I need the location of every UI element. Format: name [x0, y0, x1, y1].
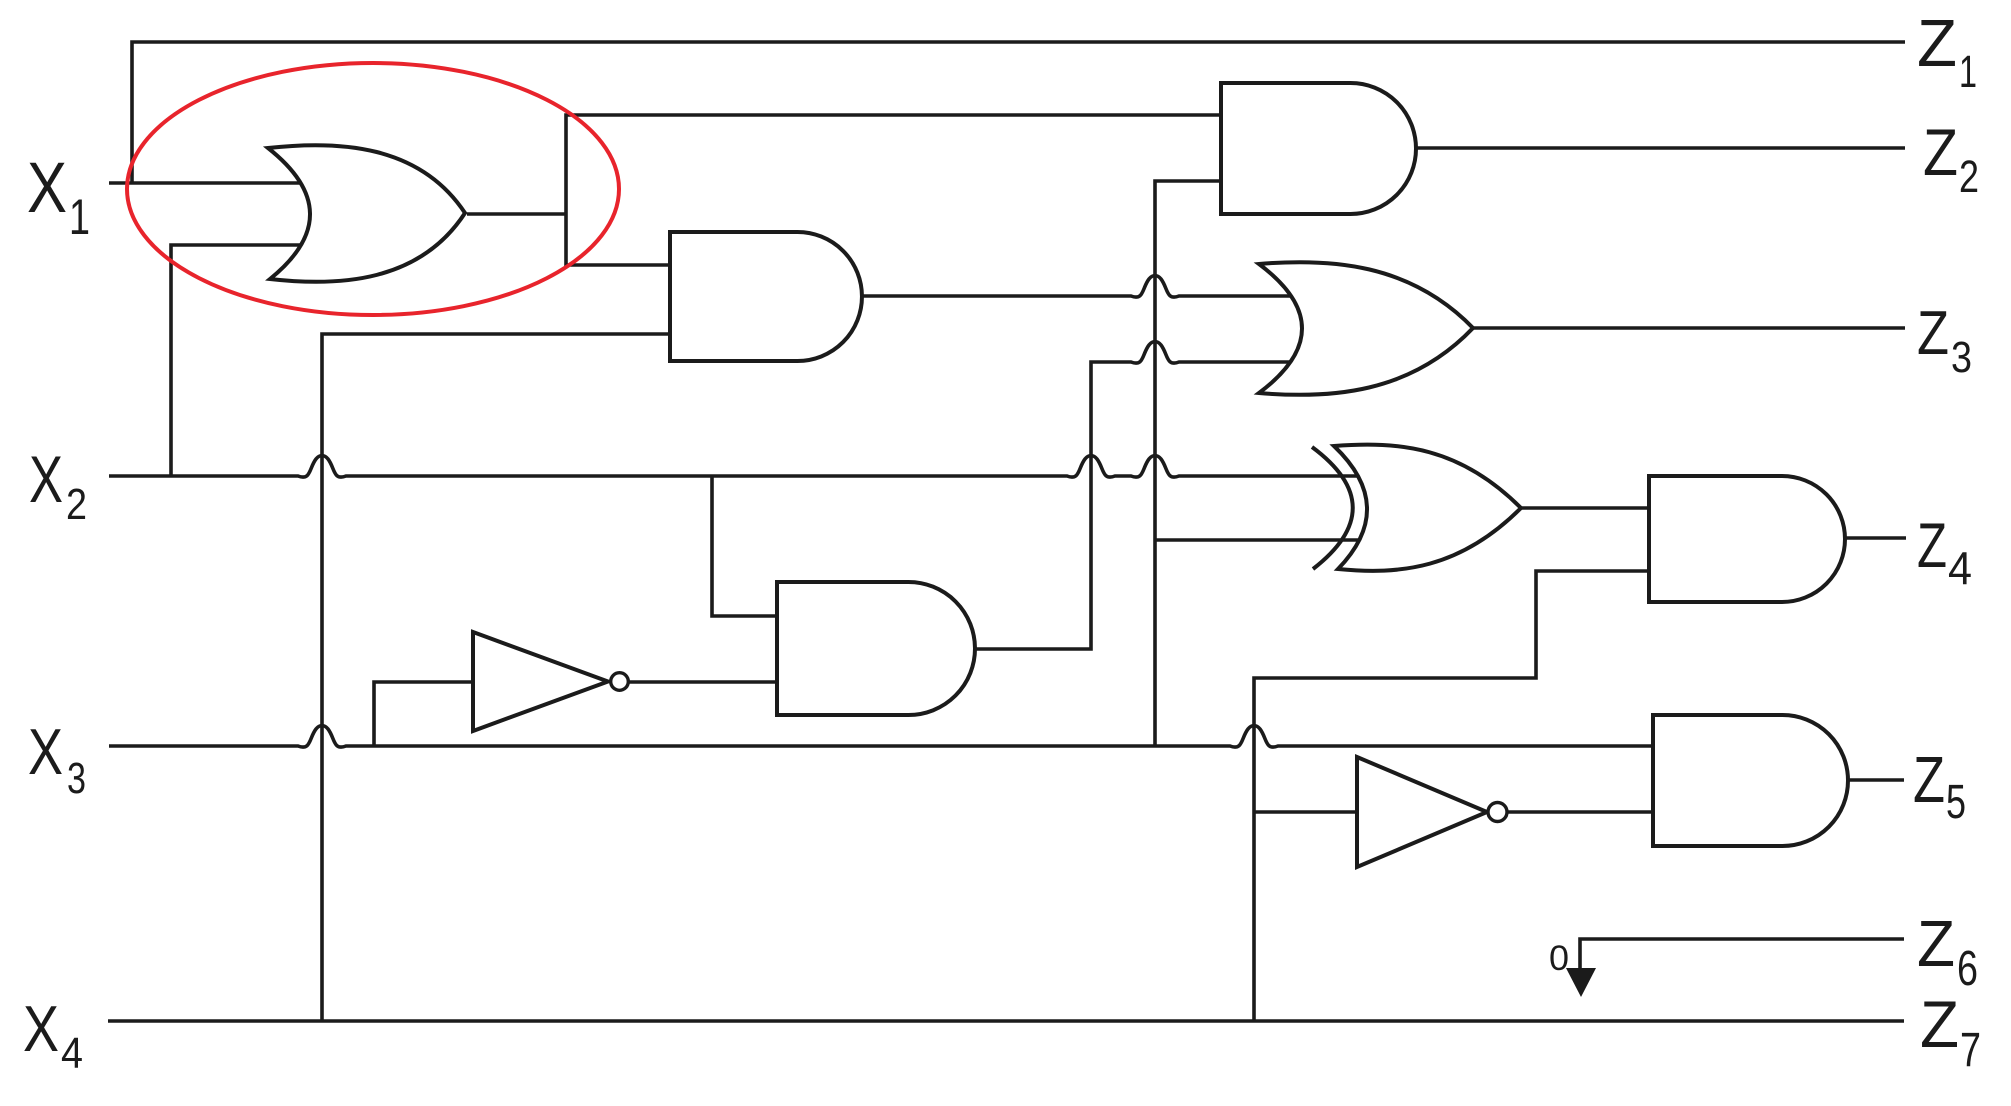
svg-text:7: 7 — [1960, 1024, 1981, 1077]
wire Z1 net: X1 branch up and across to Z1 — [132, 42, 1905, 183]
xor-gate G7 body — [1334, 445, 1521, 571]
or-gate G5 — [1259, 262, 1473, 395]
wire OR G5 output to Z3 — [1473, 326, 1905, 330]
and-gate G3 — [777, 582, 975, 715]
wire X2 branch up to OR G1 lower input — [171, 245, 305, 476]
svg-text:Z: Z — [1917, 299, 1949, 368]
svg-text:Z: Z — [1923, 115, 1958, 189]
and-gate G10 — [1653, 715, 1848, 846]
wire X2 input across to XOR G7 upper input (hops at x=322,1091,1155) — [109, 456, 1368, 477]
wire AND G6 output to Z2 — [1416, 146, 1905, 150]
svg-text:2: 2 — [66, 480, 87, 529]
wire OR G1 output — [467, 212, 566, 216]
svg-text:4: 4 — [61, 1029, 83, 1078]
and-gate G2 — [670, 232, 862, 361]
wire AND G2 output to OR G5 upper input (hops at x=1155) — [860, 276, 1300, 297]
svg-text:Z: Z — [1917, 907, 1955, 980]
and-gate G8 — [1649, 476, 1845, 602]
svg-text:X: X — [29, 442, 63, 516]
svg-text:X: X — [28, 715, 63, 788]
wire X3 bus branch to XOR G7 lower input — [1155, 538, 1368, 542]
or-gate G1 (circled) — [268, 145, 465, 282]
svg-text:X: X — [27, 149, 67, 228]
wire X3 stub up to NOT G4 input — [374, 682, 478, 746]
xor-gate G7 input arc — [1312, 447, 1353, 569]
wire X4 branch up to AND G2 lower input — [322, 334, 680, 1021]
wire NOT G4 output to AND G3 lower input — [629, 680, 784, 684]
not-gate G9 triangle — [1357, 757, 1487, 867]
svg-text:1: 1 — [69, 189, 90, 245]
wire G1 output node to AND G6 upper input and AND G2 upper input — [566, 115, 1221, 265]
svg-text:6: 6 — [1957, 942, 1978, 996]
red highlight ellipse around G1 — [127, 63, 619, 315]
svg-text:4: 4 — [1948, 542, 1972, 594]
svg-text:Z: Z — [1920, 987, 1959, 1061]
wire AND G10 output to Z5 — [1848, 778, 1904, 782]
svg-text:3: 3 — [1951, 333, 1972, 382]
wire X3 input across to AND G10 upper input (hops at x=322,1254) — [109, 726, 1653, 747]
not-gate G9 bubble — [1488, 803, 1507, 822]
svg-text:0: 0 — [1549, 939, 1569, 978]
svg-text:X: X — [23, 992, 59, 1065]
constant 0 arrowhead — [1566, 968, 1596, 997]
wire AND G8 output to Z4 — [1845, 536, 1906, 540]
and-gate G6 — [1221, 83, 1416, 214]
wire X1 input — [109, 181, 310, 185]
wire constant-0 to Z6 — [1580, 939, 1904, 968]
svg-text:Z: Z — [1917, 511, 1947, 581]
svg-text:1: 1 — [1959, 46, 1977, 97]
wire X4 branch up, over to AND G8 lower input — [1254, 571, 1649, 1021]
wire NOT G9 output to AND G10 lower input — [1507, 810, 1653, 814]
svg-text:5: 5 — [1946, 776, 1966, 829]
wire X3 bus: up from X3 line to AND G6 lower input — [1155, 181, 1221, 746]
wire X4 branch to NOT G9 input — [1254, 810, 1362, 814]
wire X2 branch down to AND G3 upper input — [712, 476, 784, 616]
svg-text:2: 2 — [1959, 151, 1979, 202]
wire AND G3 output up and right to OR G5 lower input (hops at x=1155) — [973, 342, 1296, 649]
not-gate G4 triangle — [473, 632, 608, 731]
not-gate G4 bubble — [611, 673, 629, 691]
svg-text:3: 3 — [67, 754, 86, 803]
wire XOR G7 output to AND G8 upper input — [1521, 506, 1649, 510]
svg-text:Z: Z — [1917, 6, 1957, 81]
svg-text:Z: Z — [1913, 743, 1945, 816]
wire X4 input across to Z7 — [108, 1019, 1904, 1023]
